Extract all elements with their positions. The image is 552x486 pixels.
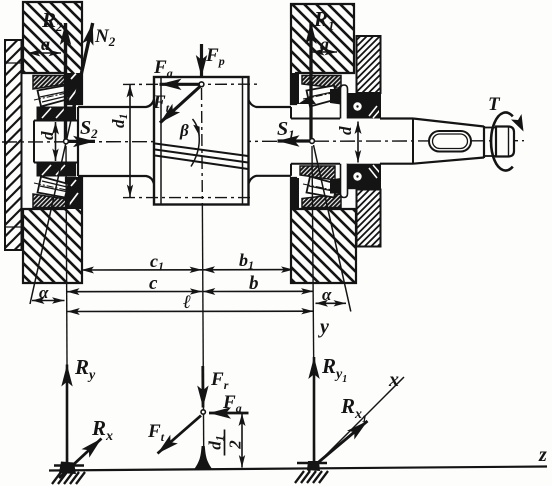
dimension b [203,290,314,292]
force Rx1 arrow [308,421,368,471]
left bearing end cap plate [5,40,22,250]
taper end face [483,126,485,158]
left support junction blob [59,462,76,475]
force R1 arrow [309,22,312,141]
force Rx arrow [59,439,102,479]
dimension b1 [203,269,294,271]
left roller axis lower [34,183,71,191]
svg-text:Fa: Fa [222,392,242,415]
right support pad [297,462,327,465]
right locknut lower (black) [346,164,380,190]
shaft left end face [33,121,35,163]
shaft taper step [412,119,414,164]
svg-text:S2: S2 [80,117,98,141]
svg-text:Fr: Fr [210,369,229,392]
force R2 arrow [64,23,67,141]
dimension d left [55,122,57,161]
right housing rib lower (dark) [291,178,299,209]
shaft left bearing seat edges [34,120,78,122]
right support junction blob [307,461,320,471]
svg-text:α: α [39,283,49,302]
force S1 arrow [278,139,313,142]
svg-text:Rx: Rx [91,416,113,444]
gear helix lines [155,144,248,170]
right bearing roller lower [307,177,338,198]
right housing lower block [291,178,356,283]
right pressure line [314,145,351,312]
svg-text:Ft: Ft [147,421,165,444]
svg-text:Fa: Fa [153,57,173,80]
left housing lower block [23,178,82,283]
force Ft arrow [160,87,200,123]
left housing rib lower (dark) [66,178,82,209]
left housing upper block [23,2,82,104]
right bearing inner race band lower (hatched) [300,166,335,180]
svg-text:β: β [179,121,189,140]
gear vertical centerline [201,88,204,210]
right bearing cap upper (hatched) [357,36,381,93]
left support hatching [52,472,85,484]
svg-text:T: T [488,94,501,115]
right housing rib upper (dark) [291,73,299,104]
shaft upper edge left of gear with fillet [78,100,154,108]
svg-text:c1: c1 [150,251,164,273]
right vertical extension line [312,146,315,466]
left bearing roller lower [38,177,69,198]
right roller axis lower [303,184,340,192]
right bearing cap lower (hatched) [357,190,381,247]
left bearing center node [64,139,69,144]
force Fa arrow bottom [209,412,249,415]
locknut end face [379,93,381,119]
right spacer slot upper (white channel) [341,85,348,119]
svg-text:d: d [38,131,57,140]
alpha angle left [32,300,65,302]
right housing upper block [291,4,354,104]
force Ft arrow bottom [158,416,202,454]
svg-text:Ry: Ry [74,355,96,383]
right bearing inner race lower [330,178,345,194]
left vertical extension line [66,146,68,470]
right locknut upper (black) [346,93,380,119]
svg-text:x: x [388,369,399,391]
left housing rib upper (dark) [66,73,82,104]
left support pad [54,464,84,467]
shaft right shoulder [290,107,292,119]
svg-text:N2: N2 [94,26,116,49]
force N2 arrow [73,23,93,111]
right bearing center node [310,139,315,144]
svg-text:d: d [336,126,355,135]
bottom node [201,410,205,414]
svg-text:d1: d1 [206,435,227,450]
svg-text:d1: d1 [109,114,130,129]
gear pitch line top (dash-dot) [123,83,258,85]
dimension l [67,310,313,312]
svg-text:b: b [249,273,259,294]
right spacer slot lower (white channel) [341,164,348,198]
force Fp arrow [200,44,203,77]
svg-text:S1: S1 [277,118,295,142]
shaft left shoulder [77,107,79,176]
svg-text:a: a [320,34,329,54]
svg-text:Fp: Fp [205,45,225,68]
gear pitch line bottom (dash-dot) [123,197,254,199]
svg-text:ℓ: ℓ [183,292,191,313]
torque arc T [491,113,513,171]
dimension a right [312,51,337,53]
right roller axis upper [303,92,340,100]
gear body [154,77,249,205]
right bearing inner cone upper (dark wedge) [298,96,316,104]
dimension c [67,291,202,293]
right bearing outer race upper [302,76,341,89]
shaft right bearing seat edges [291,118,340,120]
svg-text:c: c [149,273,158,294]
svg-text:2: 2 [226,440,245,450]
alpha angle right [316,302,347,304]
svg-text:Ry1: Ry1 [321,354,347,385]
dimension d1 (gear pitch diameter) [129,85,131,197]
svg-text:R2.: R2. [41,8,68,35]
threaded stub [484,127,496,129]
left bearing outer race upper [33,76,69,90]
force S2 arrow [66,140,95,143]
dimension c1 [82,269,203,271]
svg-text:Rx1: Rx1 [340,394,367,425]
right support hatching [295,471,328,483]
ground z axis line [49,467,547,471]
svg-text:b1: b1 [239,250,254,272]
shaft taper edges [413,119,484,127]
x axis line [315,377,404,466]
left bearing roller upper [38,86,69,107]
dimension d1/2 [241,414,243,468]
keyway [429,131,471,152]
left bearing inner race lower [37,163,77,177]
dimension d right [357,122,359,163]
svg-text:a: a [41,34,50,54]
main shaft axis centerline [2,141,524,142]
right bearing roller upper [307,86,338,107]
beta angle arc [191,119,199,167]
force Fr arrow [201,366,204,408]
left bearing inner race upper [37,107,77,121]
right bearing inner race upper [330,89,345,105]
left pressure line (N2 line) [30,111,73,304]
shaft edges right of locknut [380,117,413,119]
gear rim lines [160,77,162,205]
shaft lower edge left of gear with fillet [78,176,154,184]
force Ry1 arrow [313,357,316,464]
end nut [496,127,514,157]
trumpet base of gear line [194,446,214,470]
shaft upper edge right of gear with fillet [249,100,292,107]
gear pitch node [199,82,204,87]
right bearing outer race lower [302,194,341,208]
left roller axis upper [34,92,71,100]
left bearing outer race lower [33,194,69,208]
force Ry arrow [66,365,69,467]
force Fa arrow [160,83,200,86]
dimension a left [28,52,61,54]
svg-text:z: z [538,444,547,466]
shaft lower edge right of gear with fillet [249,176,292,184]
svg-text:α: α [322,285,332,304]
svg-text:y: y [318,316,329,338]
